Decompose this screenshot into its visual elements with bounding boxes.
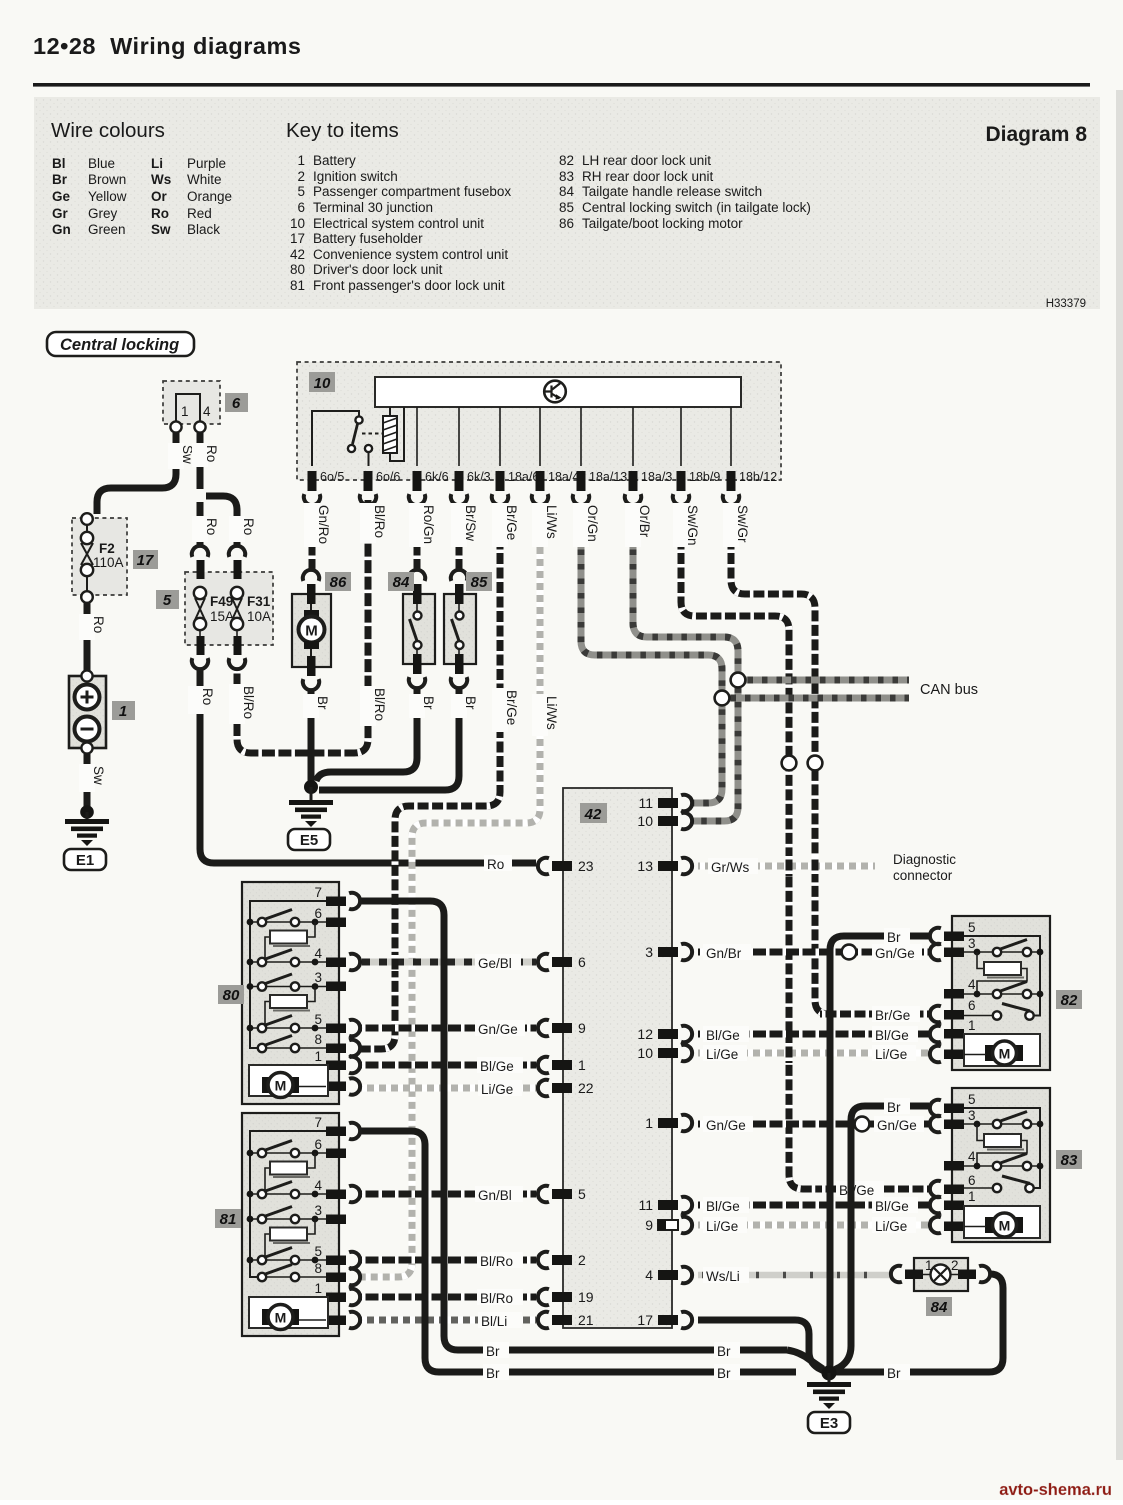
pin 18b/9 of unit 10 <box>677 470 721 491</box>
wire label Br below switch 84 <box>409 694 436 718</box>
svg-text:Ws: Ws <box>151 172 171 187</box>
svg-text:18a/6: 18a/6 <box>508 470 539 484</box>
wire label Bl/Ge lower left <box>703 1197 749 1214</box>
svg-text:Tailgate/boot locking motor: Tailgate/boot locking motor <box>582 216 743 231</box>
wire label Sw <box>168 443 195 469</box>
riser wire from unit 81 pin 7 to bottom Br rail <box>360 1131 796 1372</box>
wire label Gn/Bl <box>475 1186 523 1203</box>
svg-text:1: 1 <box>297 153 305 168</box>
svg-text:7: 7 <box>314 885 322 900</box>
unit 81 switch row 5 <box>247 1248 326 1265</box>
wire Ge/Bl unit 80 pin 4 to 42 pin 6 <box>360 959 536 966</box>
svg-text:Br: Br <box>717 1344 731 1359</box>
badge 86 <box>325 572 351 591</box>
svg-text:12•28 Wiring diagrams: 12•28 Wiring diagrams <box>33 33 301 59</box>
unit 82 resistor <box>977 952 1027 994</box>
badge 85 <box>466 572 492 591</box>
wire label Li/Ws mid <box>532 694 559 736</box>
terminal circle pin4 connector 6 <box>194 421 205 432</box>
svg-text:85: 85 <box>559 200 574 215</box>
wire Gn/Bl unit 81 pin 4 to 42 pin 5 <box>360 1191 536 1198</box>
svg-text:E1: E1 <box>76 852 94 869</box>
svg-text:82: 82 <box>1061 992 1078 1009</box>
wire Bl/Ro unit 81 pin 1 to 42 pin 19 <box>360 1294 536 1301</box>
unit 80 pin 5 <box>314 1012 360 1036</box>
badge 6 <box>225 393 248 412</box>
svg-text:Gn/Br: Gn/Br <box>706 946 742 961</box>
svg-text:1: 1 <box>181 404 189 419</box>
unit 81 resistor R1 <box>265 1153 315 1194</box>
svg-text:Br: Br <box>486 1344 500 1359</box>
unit 82 motor enclosure <box>964 1034 1040 1066</box>
RH rear door lock unit 83 box <box>952 1088 1050 1242</box>
badge 81 <box>215 1209 241 1228</box>
unit 42 right pin 1 <box>645 1115 692 1131</box>
svg-text:80: 80 <box>223 987 240 1004</box>
svg-text:M: M <box>275 1310 287 1326</box>
ground E5 <box>289 780 333 827</box>
wire Or/Br from pin 18a/3 to unit 42 pin 10 <box>633 504 738 821</box>
unit 83 motor M <box>964 1213 1023 1237</box>
unit 80 switch row 5 <box>247 1016 326 1033</box>
svg-text:Central locking: Central locking <box>60 336 179 354</box>
svg-text:Ro: Ro <box>204 518 219 535</box>
pin 18a/6 of unit 10 <box>496 470 540 491</box>
wire Bl/Ge from 42 pin 11 to unit 83 pin 1 <box>698 1202 929 1209</box>
unit 83 motor enclosure <box>964 1206 1040 1238</box>
unit 80 pin 4 <box>314 946 360 970</box>
unit 42 left pin 22 <box>538 1080 594 1096</box>
wire label Bl/Ge lower right <box>872 1197 918 1214</box>
wire Ws/Li from 42 pin 4 to switch 84 pin 1 <box>698 1272 890 1279</box>
svg-text:3: 3 <box>968 1108 976 1123</box>
wire Or/Gn from pin 18a/13 to unit 42 pin 11 <box>581 504 722 803</box>
svg-text:10: 10 <box>290 216 305 231</box>
wire Gn/Ro from pin 6o/5 to motor 86 <box>309 504 316 571</box>
bottom Br rail 1 label left <box>483 1342 509 1359</box>
wire label Gn/Ge lower right <box>874 1116 924 1133</box>
svg-text:86: 86 <box>559 216 574 231</box>
svg-text:8: 8 <box>314 1032 322 1047</box>
svg-text:Br: Br <box>52 172 68 187</box>
svg-text:9: 9 <box>645 1217 653 1233</box>
connector arc above F49 <box>192 546 208 557</box>
unit 80 switch row 4 <box>247 950 326 967</box>
bottom Br rail 1 into ground E3 <box>787 1350 823 1369</box>
wire Bl/Li unit 81 pin 2 to 42 pin 21 <box>360 1317 536 1324</box>
connector 6 (terminal 30 junction) dashed box <box>163 381 220 424</box>
badge 1 <box>112 701 135 720</box>
unit 81 motor M <box>262 1305 326 1330</box>
pin 18a/3 of unit 10 <box>629 470 673 491</box>
wire label Br below switch 85 <box>451 694 478 718</box>
svg-text:110A: 110A <box>93 555 124 570</box>
wire Br/Ge continuation to unit 82 pin 6 <box>820 1011 929 1018</box>
svg-text:Sw: Sw <box>151 222 171 237</box>
unit 81 pin 4 <box>314 1178 360 1202</box>
scan edge shade right <box>1116 90 1123 1460</box>
junction circle Or/Br to CAN upper <box>731 673 746 688</box>
junction circle on Sw/Gr wire <box>808 756 823 771</box>
svg-text:19: 19 <box>578 1289 594 1305</box>
wire label Or/Gn <box>573 503 600 547</box>
svg-text:Sw/Gr: Sw/Gr <box>735 505 750 543</box>
unit 42 left pin 19 <box>538 1289 594 1305</box>
unit 42 left pin 5 <box>538 1186 586 1202</box>
wire label Ro left branch <box>192 516 219 542</box>
unit 81 pin 5 <box>314 1244 360 1268</box>
pin 6k/3 of unit 10 <box>455 470 491 491</box>
unit 80 pin 6 <box>314 906 346 927</box>
unit 82 pin 1 <box>930 1018 976 1042</box>
motor 86 bottom pin bar <box>307 656 316 676</box>
svg-text:Br: Br <box>463 696 478 710</box>
wire Bl/Ge unit 80 pin 1 to 42 pin 1 <box>360 1062 536 1069</box>
switch 84 pin 1 arc <box>891 1266 902 1282</box>
svg-text:Bl: Bl <box>52 156 66 171</box>
wire label Gn/Ge lower left <box>703 1116 753 1133</box>
unit 42 right pin 17 <box>637 1312 692 1328</box>
svg-text:Li/Ge: Li/Ge <box>481 1082 513 1097</box>
svg-text:Gn/Ro: Gn/Ro <box>316 505 331 544</box>
svg-text:2: 2 <box>951 1258 959 1273</box>
wire Gn/Ge from 42 pin 1 to unit 83 pin 3 <box>698 1121 929 1128</box>
crossing restore riser x425 over light rows <box>422 1311 429 1329</box>
fuse F2 terminal circles <box>81 513 93 525</box>
wire label Ro below F49 <box>188 686 215 714</box>
switch 84 pin 2 arc <box>979 1266 990 1282</box>
svg-text:Br/Ge: Br/Ge <box>839 1183 874 1198</box>
switch 84 bottom pin bar <box>413 654 422 674</box>
fuse F31 <box>231 587 243 630</box>
svg-text:6o/5: 6o/5 <box>320 470 344 484</box>
svg-text:10: 10 <box>314 375 331 392</box>
wire label Ro <box>192 443 219 467</box>
svg-text:Convenience system control uni: Convenience system control unit <box>313 247 508 262</box>
unit 81 pin 3 <box>314 1203 346 1224</box>
unit 81 pin 8 <box>314 1261 360 1285</box>
wire Li/Ws from pin 18a/4 down to unit 81 pin 8 riser <box>360 504 540 1277</box>
unit 81 switch row 4 <box>247 1182 326 1199</box>
wire Br return from switch 84 pin 2 to ground E3 <box>830 1274 1003 1372</box>
transistor symbol U10 <box>544 381 566 403</box>
svg-text:6k/6: 6k/6 <box>425 470 449 484</box>
relay switch in unit 10 <box>312 411 382 466</box>
svg-text:Sw/Gn: Sw/Gn <box>685 505 700 546</box>
svg-text:CAN bus: CAN bus <box>920 682 978 698</box>
svg-text:Ro: Ro <box>151 206 169 221</box>
connector bar above F31 <box>234 560 242 579</box>
svg-text:Bl/Ro: Bl/Ro <box>480 1254 513 1269</box>
svg-text:Li/Ge: Li/Ge <box>875 1219 907 1234</box>
wire Bl/Ge from 42 pin 12 to unit 82 pin 1 <box>698 1031 929 1038</box>
unit 80 switch row 6 <box>247 910 326 927</box>
wire label Bl/Ge right <box>872 1026 918 1043</box>
crossing restore Br vertical x830 over light rows <box>827 1043 834 1285</box>
svg-text:3: 3 <box>645 944 653 960</box>
svg-text:3: 3 <box>314 970 322 985</box>
wire label Bl/Ge left <box>703 1026 749 1043</box>
bottom Br rail 1 label right <box>714 1342 740 1359</box>
badge 5 <box>156 590 179 609</box>
svg-text:10A: 10A <box>247 609 271 624</box>
connector arc above F31 <box>229 546 245 557</box>
unit 42 right pin 13 <box>637 858 692 874</box>
wire label Gn/Ro <box>304 503 331 547</box>
unit 42 left pin 9 <box>538 1020 586 1036</box>
pin 18a/13 of unit 10 <box>577 470 628 491</box>
central locking caption box <box>47 332 194 356</box>
relay coil in unit 10 <box>383 407 404 461</box>
unit 81 resistor R2 <box>265 1219 315 1260</box>
svg-text:6: 6 <box>968 1173 976 1188</box>
svg-text:6o/6: 6o/6 <box>376 470 400 484</box>
unit 42 right pin 9 (outline bar) <box>645 1217 692 1233</box>
wire Br/Sw from pin 6k/3 to switch 85 <box>456 504 463 571</box>
connector bar below F31 <box>234 636 242 655</box>
wire label Ro horizontal before pin 23 <box>484 855 512 872</box>
unit 82 right rail from pin 5 <box>964 936 1040 1016</box>
svg-text:Li/Ge: Li/Ge <box>875 1047 907 1062</box>
svg-text:White: White <box>187 172 222 187</box>
svg-text:Bl/Ge: Bl/Ge <box>480 1059 514 1074</box>
unit 82 switch row 3 <box>964 940 1043 957</box>
wire from F31 down then to Bl/Ro riser <box>236 630 238 637</box>
pin 6k/6 of unit 10 <box>413 470 449 491</box>
svg-text:42: 42 <box>584 806 602 823</box>
svg-text:avto-shema.ru: avto-shema.ru <box>999 1481 1112 1499</box>
svg-text:Bl/Ge: Bl/Ge <box>875 1199 909 1214</box>
splice circle Gn/Br to Gn/Ge <box>842 945 857 960</box>
svg-text:Bl/Ro: Bl/Ro <box>372 505 387 538</box>
badge 84 upper <box>388 572 414 591</box>
unit 42 right pin 11 top <box>638 795 692 811</box>
wire label Li/Ge right of verticals <box>872 1045 916 1062</box>
unit 83 right rail from pin 5 <box>964 1108 1040 1188</box>
key panel background <box>34 97 1100 309</box>
riser wire from unit 80 pin 7 to lower Br rail <box>360 901 787 1350</box>
svg-text:12: 12 <box>637 1026 653 1042</box>
svg-text:Terminal 30 junction: Terminal 30 junction <box>313 200 433 215</box>
svg-text:7: 7 <box>314 1115 322 1130</box>
header rule <box>33 83 1090 87</box>
svg-text:6: 6 <box>232 395 241 412</box>
svg-text:Br: Br <box>421 696 436 710</box>
pin 6o/5 of unit 10 <box>308 470 345 491</box>
svg-text:Li/Ge: Li/Ge <box>706 1219 738 1234</box>
wire Sw/Gr from pin 18b/12 down right side <box>731 504 846 1014</box>
svg-text:Bl/Ro: Bl/Ro <box>241 686 256 719</box>
connector bar below F49 <box>197 636 205 655</box>
svg-text:Ro: Ro <box>204 445 219 462</box>
svg-text:Central locking switch (in tai: Central locking switch (in tailgate lock… <box>582 200 811 215</box>
LH rear door lock unit 82 box <box>952 916 1050 1070</box>
wire Br from 42 pin 17 down to ground E3 <box>698 1320 824 1371</box>
ground E1 <box>65 805 109 846</box>
svg-text:E5: E5 <box>300 832 318 849</box>
tailgate handle release switch 84 lamp box <box>914 1258 968 1291</box>
terminal circle pin1 connector 6 <box>170 421 181 432</box>
wire Li/Ge from 42 pin 9 to unit 83 pin 2 <box>698 1222 929 1229</box>
unit 83 pin 2 <box>930 1210 976 1233</box>
svg-text:10: 10 <box>637 813 653 829</box>
wire Br/Ge from pin 18a/6 down to unit 80 pin 8 riser <box>360 504 500 1049</box>
svg-text:83: 83 <box>559 169 574 184</box>
svg-text:Ignition switch: Ignition switch <box>313 169 398 184</box>
svg-text:Ro: Ro <box>200 688 215 705</box>
svg-text:connector: connector <box>893 868 953 883</box>
svg-text:1: 1 <box>645 1115 653 1131</box>
svg-text:86: 86 <box>330 574 347 591</box>
wire Gr/Ws diagnostic from 42 pin 13 <box>698 863 875 870</box>
switch 85 connector arc top <box>451 570 467 581</box>
unit 80 pin 7 <box>314 885 360 909</box>
svg-text:Gn/Ge: Gn/Ge <box>478 1022 518 1037</box>
unit 83 pin 4 <box>944 1149 976 1171</box>
svg-text:Blue: Blue <box>88 156 115 171</box>
unit 81 switch row 3 <box>247 1207 326 1224</box>
unit 42 left pin 1 <box>538 1057 586 1073</box>
unit 80 left rail from pin 7 <box>250 901 326 1048</box>
wire label Bl/Ro upper <box>477 1252 523 1269</box>
unit 82 motor M <box>964 1041 1023 1065</box>
svg-text:Gr: Gr <box>52 206 69 221</box>
unit 81 switch row 8 <box>258 1265 326 1282</box>
wire label Bl/Ro below F31 <box>229 684 256 724</box>
connector arcs below unit 10 pins <box>304 494 320 505</box>
wire Ro from F2 to battery <box>84 603 91 671</box>
svg-text:Br: Br <box>887 1100 901 1115</box>
svg-text:M: M <box>999 1218 1011 1234</box>
svg-text:Or/Gn: Or/Gn <box>585 505 600 542</box>
wire label Br/Ge upper right <box>872 1006 920 1023</box>
svg-text:Battery fuseholder: Battery fuseholder <box>313 231 423 246</box>
svg-text:6k/3: 6k/3 <box>467 470 491 484</box>
switch 85 contacts and lever <box>452 604 464 658</box>
svg-text:84: 84 <box>393 574 410 591</box>
unit 81 pin 2 <box>314 1304 360 1328</box>
white dashes on Bl/Ro wire <box>237 500 368 753</box>
junction circle Or/Gn to CAN lower <box>715 691 730 706</box>
svg-text:2: 2 <box>578 1252 586 1268</box>
unit 81 pin 7 <box>314 1115 360 1139</box>
svg-text:Bl/Ge: Bl/Ge <box>706 1028 740 1043</box>
unit 80 pin 3 <box>314 970 346 991</box>
fusebox 5 dashed box <box>185 572 273 645</box>
switch 84 contacts and lever <box>410 604 422 658</box>
svg-text:Gn/Ge: Gn/Ge <box>877 1118 917 1133</box>
unit 83 resistor <box>977 1124 1027 1166</box>
svg-text:LH rear door lock unit: LH rear door lock unit <box>582 153 711 168</box>
unit 80 pin 2 <box>314 1070 360 1095</box>
svg-text:5: 5 <box>163 592 172 609</box>
junction circle on Sw/Gn wire <box>782 756 797 771</box>
svg-text:Br: Br <box>717 1366 731 1381</box>
fuse F2 element <box>81 525 93 591</box>
wire label Bl/Ge left <box>477 1057 523 1074</box>
wire label Ro below F2 <box>79 614 106 640</box>
unit 42 right pin 12 <box>637 1026 692 1042</box>
svg-text:6: 6 <box>968 998 976 1013</box>
crossing restore riser x395 over Ge/Bl row <box>392 953 399 971</box>
wire label Br/Ge top <box>492 503 519 547</box>
wire label Gr/Ws <box>708 858 758 875</box>
wire Li/Ge from 42 pin 10 to unit 82 pin 2 <box>698 1050 929 1057</box>
svg-text:RH rear door lock unit: RH rear door lock unit <box>582 169 714 184</box>
convenience system control unit 42 box <box>563 788 672 1328</box>
svg-text:Bl/Ge: Bl/Ge <box>706 1199 740 1214</box>
crossing restore Sw/Gn vertical over light rows <box>786 856 793 1063</box>
svg-text:17: 17 <box>290 231 305 246</box>
svg-text:Li: Li <box>151 156 163 171</box>
svg-text:Grey: Grey <box>88 206 118 221</box>
svg-text:Gn/Ge: Gn/Ge <box>875 946 915 961</box>
fuse F49 <box>194 587 206 630</box>
svg-text:1: 1 <box>314 1049 322 1064</box>
splice circle on Gn/Ge lower <box>855 1117 870 1132</box>
svg-text:Ro: Ro <box>487 857 504 872</box>
wire Sw from battery to ground E1 <box>84 754 91 808</box>
svg-text:Ge: Ge <box>52 189 71 204</box>
svg-text:Br: Br <box>315 696 330 710</box>
unit 82 pin 2 <box>930 1038 976 1062</box>
svg-text:Li/Ge: Li/Ge <box>706 1047 738 1062</box>
tailgate handle release switch 84 box <box>403 594 435 664</box>
svg-text:11: 11 <box>638 795 653 811</box>
motor 86 connector arc bottom <box>303 679 319 690</box>
svg-text:Br: Br <box>887 930 901 945</box>
svg-text:Or: Or <box>151 189 168 204</box>
svg-text:Gr/Ws: Gr/Ws <box>711 860 749 875</box>
svg-text:1: 1 <box>119 703 127 720</box>
unit 82 pin 5 <box>930 920 976 944</box>
badge 84 lower <box>926 1297 952 1316</box>
unit 83 pin 1 <box>930 1189 976 1213</box>
unit 82 pin 4 <box>944 977 976 999</box>
svg-text:Ge/Bl: Ge/Bl <box>478 956 512 971</box>
svg-text:2: 2 <box>297 169 305 184</box>
wire Gn/Br from 42 pin 3 <box>698 949 842 956</box>
wire Bl/Ro unit 81 pin 5 to 42 pin 2 <box>360 1257 536 1264</box>
switch 84 connector arc bottom <box>409 677 425 688</box>
bottom Br rail 2 label left <box>483 1364 509 1381</box>
connector arc below F49 <box>192 658 208 669</box>
wire from F49 down (Ro to control unit 42 pin 23) <box>199 630 201 637</box>
svg-text:Tailgate handle release switch: Tailgate handle release switch <box>582 184 762 199</box>
wire label Ro right branch <box>229 516 256 542</box>
unit 42 right pin 3 <box>645 944 692 960</box>
unit 42 left pin 21 <box>538 1312 594 1328</box>
wire Br from unit 83 pin 5 down to ground E3 <box>834 1106 929 1370</box>
tailgate locking motor 86 box <box>292 594 331 667</box>
svg-text:M: M <box>999 1046 1011 1062</box>
svg-text:Bl/Ge: Bl/Ge <box>875 1028 909 1043</box>
svg-text:H33379: H33379 <box>1046 298 1086 310</box>
svg-text:81: 81 <box>290 278 305 293</box>
wire label Br upper <box>884 928 910 945</box>
wire Sw from connector 6 to fuse F2 <box>97 433 176 514</box>
wire label Bl/Ro top <box>360 503 387 543</box>
wire Br from switch 85 to E5 <box>319 689 459 790</box>
wire label Gn/Ge right <box>872 944 922 961</box>
unit 80 switch row 3 <box>247 974 326 991</box>
svg-text:M: M <box>305 623 318 640</box>
wire label Li/Ge lower left <box>703 1217 747 1234</box>
svg-text:18a/13: 18a/13 <box>589 470 627 484</box>
unit 80 motor enclosure <box>249 1065 328 1096</box>
central locking switch 85 box <box>444 594 476 664</box>
unit 81 pin 6 <box>314 1137 346 1158</box>
